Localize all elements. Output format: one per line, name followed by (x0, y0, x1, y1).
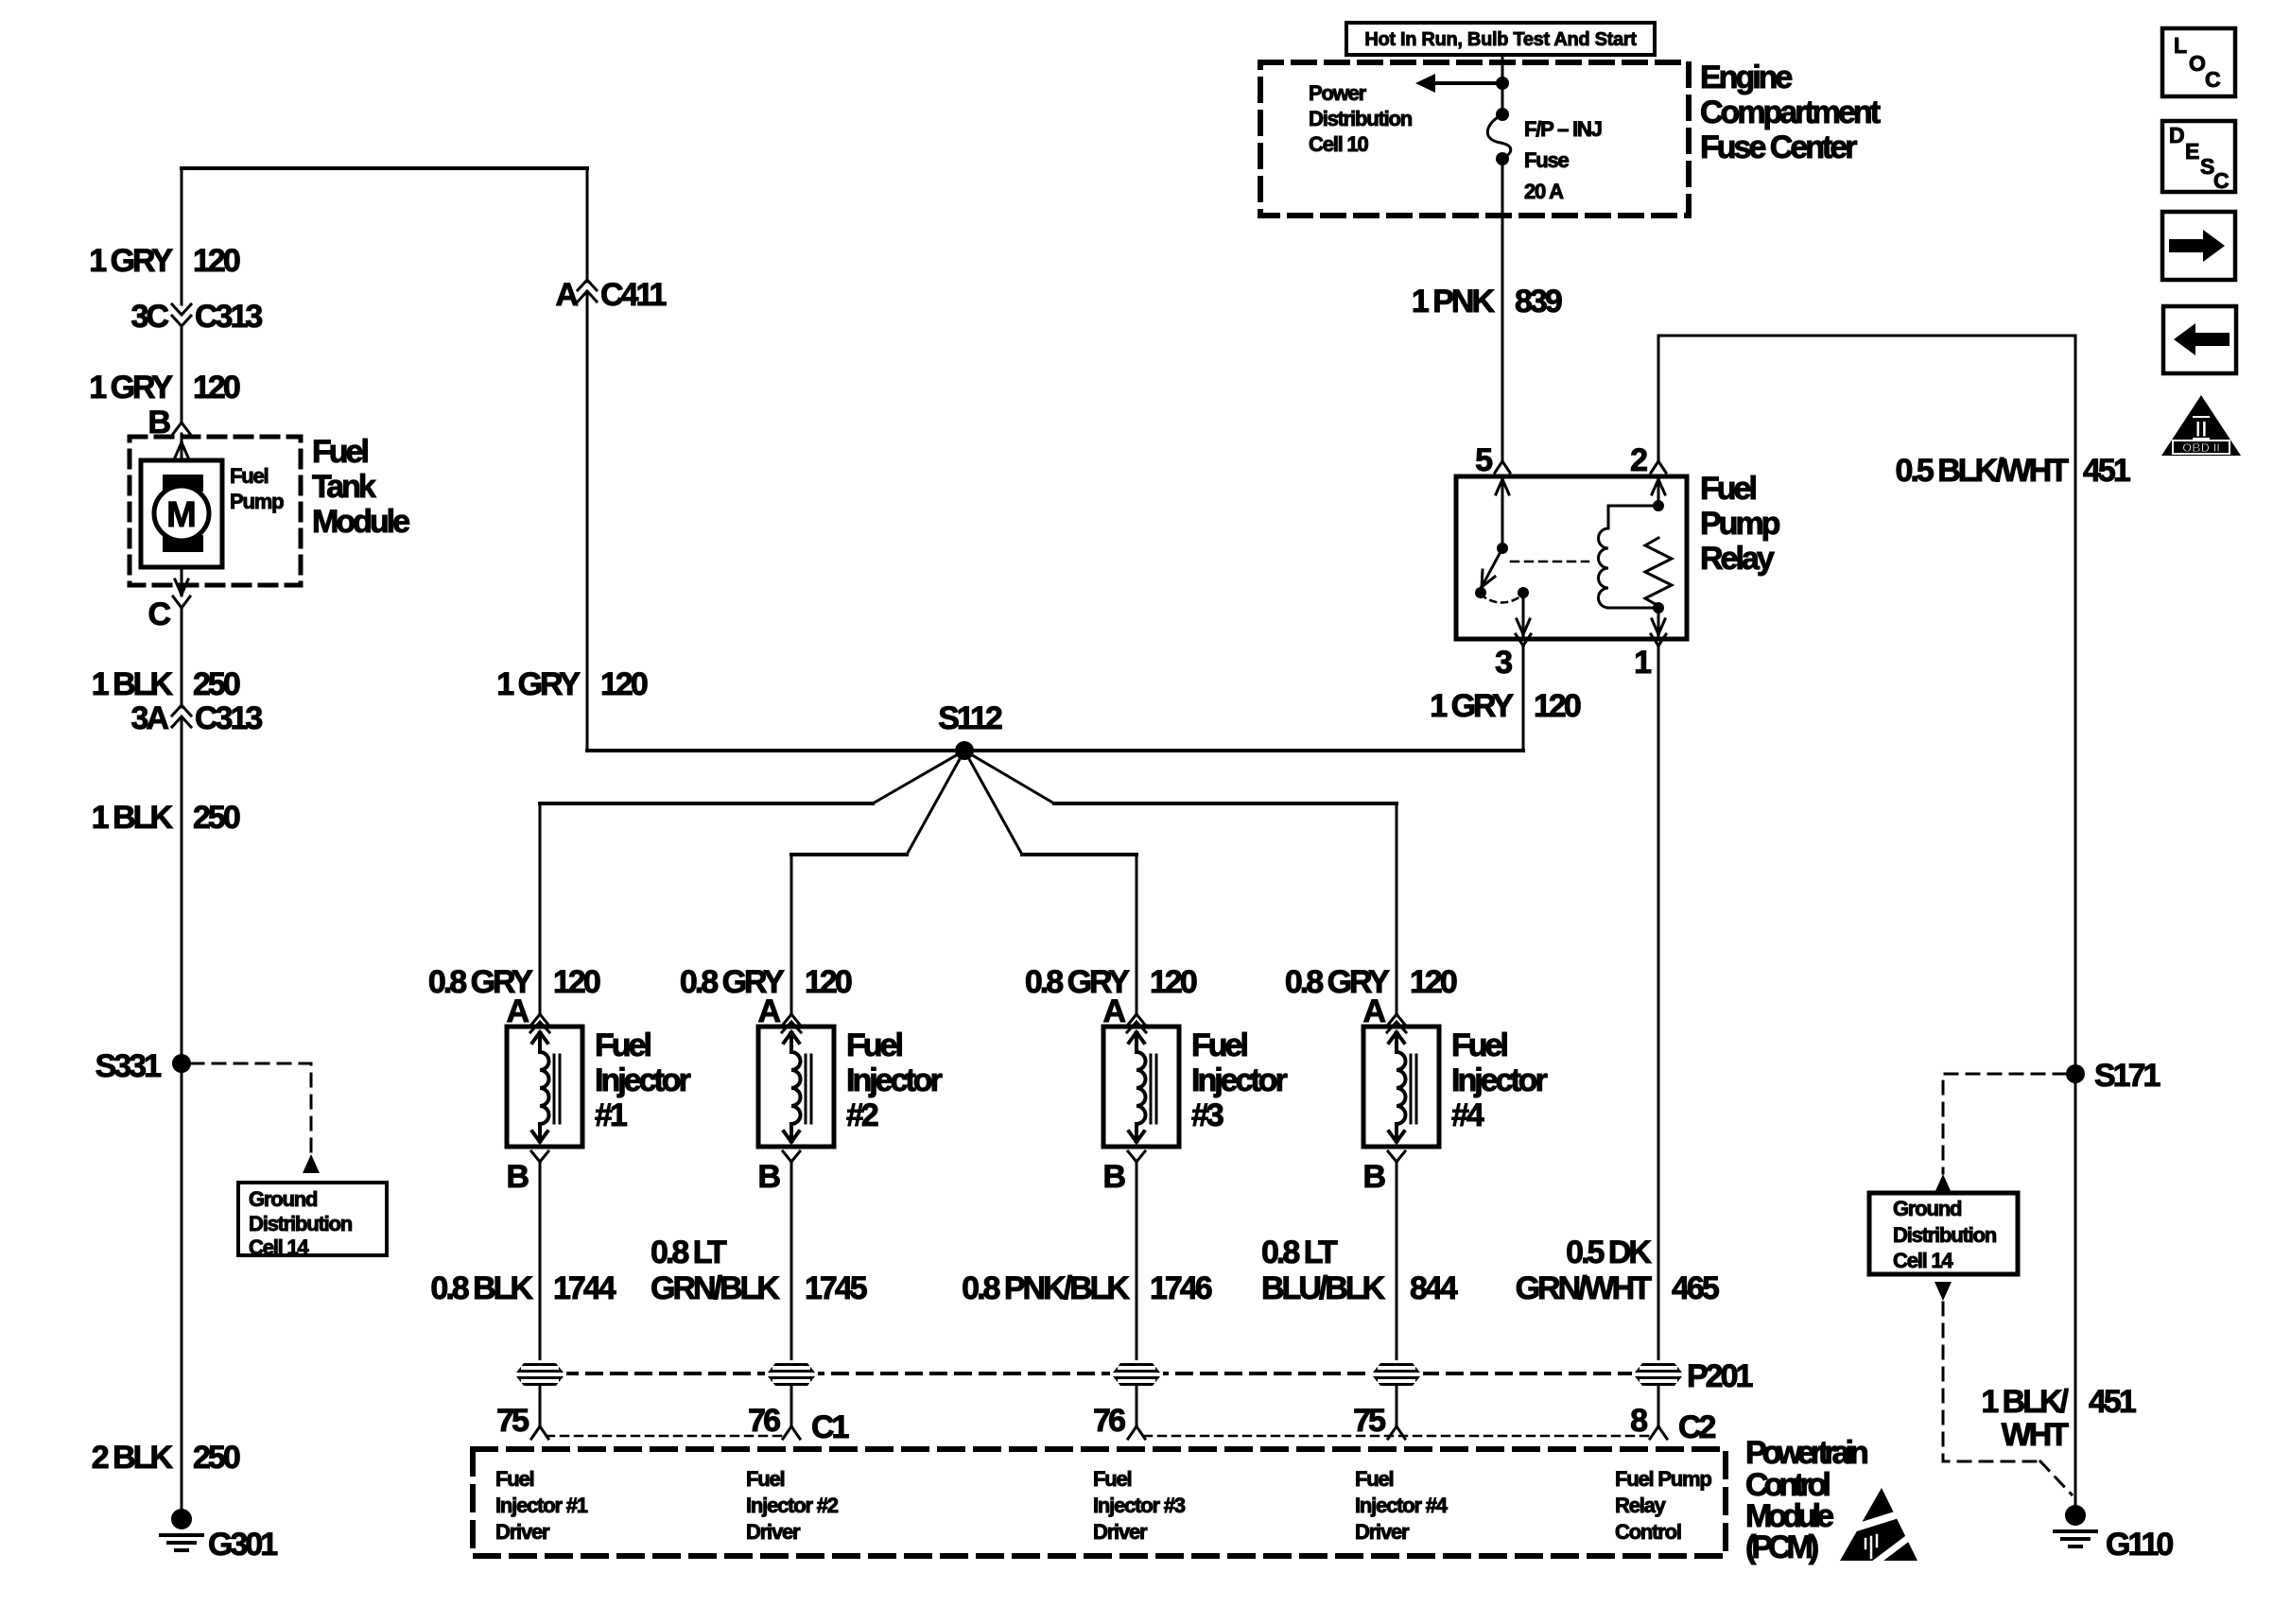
pin B of fuel injector #3 (1102, 1151, 1145, 1195)
pin 2 of fuel pump relay (1630, 442, 1666, 478)
svg-text:1 BLK/: 1 BLK/ (1981, 1384, 2069, 1420)
wire: injector #4 return to PCM through P201 (1396, 1162, 1398, 1363)
svg-text:465: 465 (1672, 1270, 1719, 1306)
svg-text:76: 76 (1093, 1403, 1125, 1439)
splice S331 (95, 1048, 191, 1084)
icon: OBD II triangle (2161, 395, 2241, 456)
label: 1 GRY 120 (C411 branch) (496, 666, 648, 702)
pin A of fuel injector #1 (506, 993, 549, 1032)
svg-text:Pump: Pump (1700, 506, 1780, 542)
pin B of fuel injector #2 (757, 1151, 800, 1195)
connector P201 pass-through at injector 2 wire (765, 1360, 818, 1389)
Ground Distribution Cell 14 reference box (right) (1869, 1193, 2018, 1274)
svg-text:WHT: WHT (2002, 1417, 2070, 1453)
svg-text:1 GRY: 1 GRY (1430, 688, 1514, 724)
wire: outer feed bus to injectors 1 and 4 (540, 802, 1397, 805)
wire: injector #2 return to PCM through P201 (790, 1162, 793, 1363)
icon: arrow right box (2162, 212, 2235, 280)
wire: feed drop 0.8 GRY 120 to fuel injector #1 (539, 803, 542, 1014)
svg-text:844: 844 (1410, 1270, 1458, 1306)
svg-text:Injector: Injector (595, 1063, 691, 1098)
svg-text:S331: S331 (95, 1048, 161, 1084)
pin B of fuel injector #4 (1362, 1151, 1405, 1195)
svg-text:3C: 3C (131, 299, 169, 335)
svg-text:250: 250 (193, 800, 240, 836)
svg-text:0.8 PNK/BLK: 0.8 PNK/BLK (962, 1270, 1130, 1306)
label: Fuel Pump Relay (1700, 471, 1780, 577)
svg-text:1: 1 (1634, 645, 1651, 681)
wire: dashed reference from Ground Distribution box to G110 (1935, 1282, 1952, 1301)
svg-text:#3: #3 (1191, 1097, 1223, 1133)
svg-text:120: 120 (193, 370, 240, 406)
PCM connector face dashed tie line (547, 1435, 1652, 1438)
label: PCM driver Injector #2 (746, 1467, 839, 1544)
pin 8 of PCM (1630, 1403, 1715, 1445)
svg-text:#1: #1 (595, 1097, 627, 1133)
pin 3 of fuel pump relay (1495, 634, 1531, 681)
svg-text:75: 75 (1353, 1403, 1385, 1439)
svg-text:Ground: Ground (1893, 1197, 1961, 1220)
pin C of fuel tank module (147, 596, 190, 632)
label: Fuel Injector #1 (595, 1028, 691, 1133)
connector P201 pass-through at injector 1 wire (513, 1360, 566, 1389)
svg-text:451: 451 (2083, 453, 2130, 489)
wire: right vertical run to G110 (2074, 336, 2077, 1509)
svg-text:120: 120 (553, 964, 600, 1000)
label: wire circuit number 1746 (962, 1270, 1212, 1306)
label: Engine Compartment Fuse Center (1700, 60, 1881, 165)
wire: left column upper segment (1 GRY 120) (181, 168, 183, 304)
pin 5 of fuel pump relay (1475, 442, 1510, 478)
connector C313 pin 3A (inline connector, chevrons up) (131, 700, 263, 736)
svg-text:C: C (2205, 67, 2221, 92)
wire: relay pin 2 up and across to right side (0.5 BLK/WHT 451) (1658, 336, 2075, 461)
svg-text:120: 120 (805, 964, 852, 1000)
label: 1 GRY 120 (relay pin 3) (1430, 688, 1581, 724)
connector P201 pass-through at injector 4 wire (1370, 1360, 1423, 1389)
pin 75 of PCM (496, 1403, 548, 1439)
fuel tank module dashed enclosure (130, 437, 301, 585)
label: 0.8 GRY 120 (injector #4) (1285, 964, 1457, 1000)
svg-text:76: 76 (748, 1403, 780, 1439)
label: Fuel Pump (230, 464, 284, 513)
svg-text:A: A (757, 993, 780, 1029)
ESD sensitivity symbol (triangle with hand) (1840, 1488, 1919, 1564)
svg-text:Fuel: Fuel (230, 464, 269, 488)
svg-text:Power: Power (1309, 81, 1367, 105)
svg-text:L: L (2174, 33, 2187, 58)
svg-text:Fuel Pump: Fuel Pump (1615, 1467, 1711, 1491)
label: 1 GRY 120 (upper) (89, 243, 240, 279)
splice S171 (2066, 1058, 2160, 1094)
svg-text:A: A (506, 993, 529, 1029)
label: wire circuit number 1745 (651, 1235, 867, 1306)
label: wire circuit number 1744 (430, 1270, 616, 1306)
svg-text:3A: 3A (131, 700, 169, 736)
icon: arrow left box (2163, 306, 2236, 373)
svg-text:GRN/WHT: GRN/WHT (1516, 1270, 1653, 1306)
svg-text:Fuel: Fuel (1093, 1467, 1132, 1491)
wire: motor to pin C with down arrow (181, 567, 183, 596)
wire: 1 PNK 839 from fuse to relay pin 5 (1501, 159, 1504, 461)
svg-text:250: 250 (193, 666, 240, 702)
wire: relay pin 1 (0.5 DK GRN/WHT 465) down to P201 and PCM (1657, 646, 1660, 1363)
wire: inner feed bus to injectors 2 and 3 (791, 853, 1136, 856)
pin A of fuel injector #4 (1362, 993, 1406, 1032)
wire: C411 column upper segment (586, 168, 589, 282)
pin 1 of fuel pump relay (1634, 634, 1666, 681)
svg-text:Distribution: Distribution (1309, 107, 1413, 130)
pin A of fuel injector #3 (1102, 993, 1146, 1032)
label: 0.5 BLK/WHT 451 (1896, 453, 2130, 489)
fuel injector #3 (solenoid valve) (1103, 1027, 1179, 1147)
wire: feed drop 0.8 GRY 120 to fuel injector #2 (790, 855, 793, 1014)
Ground Distribution Cell 14 reference box (left) (238, 1183, 387, 1259)
label: Fuel Injector #4 (1451, 1028, 1548, 1133)
svg-text:Fuel: Fuel (312, 434, 368, 470)
svg-text:1 PNK: 1 PNK (1412, 284, 1496, 320)
wire: left column long 1 BLK 250 run to G301 (181, 717, 183, 1511)
svg-text:250: 250 (193, 1440, 240, 1476)
svg-text:M: M (166, 495, 197, 535)
node: junction to Power Distribution arrow (1496, 77, 1509, 90)
svg-text:S171: S171 (2094, 1058, 2160, 1094)
svg-text:Module: Module (312, 504, 409, 540)
fuel pump motor M1 (motor symbol) (141, 460, 222, 567)
label: 0.8 GRY 120 (injector #3) (1025, 964, 1197, 1000)
svg-text:1746: 1746 (1150, 1270, 1212, 1306)
svg-text:0.5 BLK/WHT: 0.5 BLK/WHT (1896, 453, 2070, 489)
svg-text:1744: 1744 (553, 1270, 616, 1306)
engine compartment fuse center dashed enclosure (1260, 62, 1689, 216)
svg-text:Ground: Ground (249, 1187, 317, 1211)
svg-text:Injector: Injector (1191, 1063, 1288, 1098)
wire: segments from P201 to PCM connector pins (539, 1385, 542, 1426)
label: 1 BLK/WHT 451 (1981, 1384, 2136, 1453)
svg-text:3: 3 (1495, 645, 1512, 681)
svg-text:Fuel: Fuel (1700, 471, 1756, 507)
svg-text:B: B (757, 1159, 780, 1195)
label: Fuel Injector #3 (1191, 1028, 1288, 1133)
svg-text:Fuse Center: Fuse Center (1700, 130, 1857, 165)
svg-text:2: 2 (1630, 442, 1647, 478)
connector P201 pass-through at injector 3 wire (1110, 1360, 1163, 1389)
svg-text:Fuse: Fuse (1524, 148, 1570, 172)
svg-text:G301: G301 (208, 1527, 277, 1563)
svg-text:Fuel: Fuel (1191, 1028, 1247, 1063)
svg-text:BLU/BLK: BLU/BLK (1261, 1270, 1386, 1306)
svg-text:B: B (506, 1159, 529, 1195)
svg-text:1 BLK: 1 BLK (92, 666, 174, 702)
svg-text:B: B (1362, 1159, 1385, 1195)
svg-text:1745: 1745 (805, 1270, 867, 1306)
svg-text:C: C (147, 596, 170, 632)
splice S112 (938, 700, 1002, 760)
svg-text:#4: #4 (1451, 1097, 1484, 1133)
pin 75 of PCM (1353, 1403, 1405, 1439)
wire: dashed reference from S331 to Ground Distribution Cell 14 (191, 1063, 311, 1153)
svg-text:Driver: Driver (1093, 1520, 1148, 1544)
svg-text:Fuel: Fuel (1355, 1467, 1394, 1491)
svg-text:Cell 14: Cell 14 (1893, 1249, 1953, 1272)
svg-text:75: 75 (496, 1403, 529, 1439)
svg-text:451: 451 (2089, 1384, 2136, 1420)
label: Power Distribution Cell 10 (1309, 81, 1413, 156)
pin B of fuel tank module (147, 405, 190, 441)
svg-text:(PCM): (PCM) (1745, 1529, 1818, 1565)
connector C313 pin 3C (inline connector, chevrons down) (131, 299, 263, 335)
svg-text:2 BLK: 2 BLK (92, 1440, 174, 1476)
svg-text:C2: C2 (1678, 1409, 1716, 1445)
wire: top horizontal 1 GRY bus from fuel pump column to C411 column (182, 166, 587, 170)
power feed box: Hot In Run, Bulb Test And Start (1346, 23, 1655, 55)
svg-text:C1: C1 (811, 1409, 849, 1445)
wire: left column segment between C313 and fuel tank module (1 GRY 120) (181, 326, 183, 423)
label: 0.5 DK GRN/WHT 465 (1516, 1235, 1719, 1306)
label: PCM driver Injector #3 (1093, 1467, 1186, 1544)
wire: left column 1 BLK 250 segment to C313 (181, 608, 183, 707)
pin B of fuel injector #1 (506, 1151, 548, 1195)
wire: injector #1 return to PCM through P201 (539, 1162, 542, 1363)
wire: injector #3 return to PCM through P201 (1136, 1162, 1138, 1363)
svg-text:Distribution: Distribution (1893, 1223, 1997, 1247)
svg-text:C313: C313 (195, 299, 262, 335)
svg-text:Injector #4: Injector #4 (1355, 1494, 1449, 1517)
svg-text:Pump: Pump (230, 490, 284, 513)
svg-text:1 GRY: 1 GRY (89, 243, 173, 279)
svg-text:Control: Control (1615, 1520, 1681, 1544)
wire: feed from hot bus into fuse (1501, 55, 1504, 83)
ground G301 (161, 1509, 277, 1563)
svg-text:Relay: Relay (1700, 541, 1775, 577)
wire: feed drop 0.8 GRY 120 to fuel injector #4 (1396, 803, 1398, 1014)
svg-text:1 BLK: 1 BLK (92, 800, 174, 836)
svg-text:B: B (1102, 1159, 1125, 1195)
svg-text:Driver: Driver (746, 1520, 801, 1544)
svg-text:Driver: Driver (1355, 1520, 1410, 1544)
label: 2 BLK 250 (92, 1440, 240, 1476)
svg-text:S112: S112 (938, 700, 1002, 736)
svg-text:1 GRY: 1 GRY (89, 370, 173, 406)
fuel pump relay K1 (1456, 476, 1687, 639)
wire: main horizontal 1 GRY bus through splice S112 (587, 749, 1523, 752)
label: 0.8 GRY 120 (injector #1) (428, 964, 600, 1000)
label: PCM driver Injector #4 (1355, 1467, 1449, 1544)
svg-text:1 GRY: 1 GRY (496, 666, 581, 702)
wire: C411 column lower segment 1 GRY 120 down to S112 bus (586, 292, 589, 751)
Powertrain Control Module dashed enclosure (473, 1449, 1726, 1556)
wire: dashed reference from S171 to Ground Distribution Cell 14 (1943, 1074, 2066, 1173)
label: PCM driver Injector #1 (495, 1467, 588, 1544)
svg-text:120: 120 (1150, 964, 1197, 1000)
label: 0.8 GRY 120 (injector #2) (680, 964, 852, 1000)
pin 76 of PCM (1093, 1403, 1145, 1439)
svg-text:120: 120 (1534, 688, 1581, 724)
wire: feed into motor with up arrow (181, 434, 183, 460)
svg-text:Tank: Tank (312, 469, 376, 505)
svg-text:Hot In Run, Bulb Test And Star: Hot In Run, Bulb Test And Start (1364, 29, 1637, 50)
svg-text:Injector: Injector (1451, 1063, 1548, 1098)
svg-text:Fuel: Fuel (1451, 1028, 1507, 1063)
svg-text:G110: G110 (2106, 1527, 2173, 1563)
svg-text:A: A (1362, 993, 1385, 1029)
label: 1 PNK 839 (1412, 284, 1562, 320)
svg-text:8: 8 (1630, 1403, 1647, 1439)
svg-text:Fuel: Fuel (595, 1028, 651, 1063)
label: wire circuit number 844 (1261, 1235, 1458, 1306)
svg-text:Injector #1: Injector #1 (495, 1494, 588, 1517)
svg-text:Fuel: Fuel (746, 1467, 785, 1491)
svg-text:Powertrain: Powertrain (1745, 1435, 1867, 1471)
svg-text:F/P – INJ: F/P – INJ (1524, 117, 1602, 141)
wire: arrow to Power Distribution Cell 10 (1433, 81, 1502, 85)
svg-text:Injector #2: Injector #2 (746, 1494, 839, 1517)
svg-text:#2: #2 (846, 1097, 878, 1133)
svg-text:Injector #3: Injector #3 (1093, 1494, 1186, 1517)
svg-text:0.5 DK: 0.5 DK (1566, 1235, 1652, 1270)
svg-text:Fuel: Fuel (846, 1028, 902, 1063)
svg-text:A: A (1102, 993, 1125, 1029)
label: Fuel Tank Module (312, 434, 409, 540)
connector P201 dashed tie line (563, 1372, 1636, 1375)
svg-text:Cell 10: Cell 10 (1309, 132, 1368, 156)
svg-text:C411: C411 (600, 277, 666, 313)
svg-text:120: 120 (1410, 964, 1457, 1000)
svg-text:O: O (2189, 51, 2206, 76)
svg-text:D: D (2169, 123, 2185, 147)
svg-text:120: 120 (600, 666, 648, 702)
icon: DESC box (2162, 121, 2235, 193)
connector P201 pass-through at relay control wire (1632, 1360, 1685, 1389)
label: Powertrain Control Module (PCM) (1745, 1435, 1867, 1565)
svg-text:Compartment: Compartment (1700, 95, 1881, 130)
svg-text:Fuel: Fuel (495, 1467, 534, 1491)
svg-text:E: E (2185, 139, 2199, 164)
svg-text:0.8 LT: 0.8 LT (651, 1235, 727, 1270)
svg-text:GRN/BLK: GRN/BLK (651, 1270, 780, 1306)
label: PCM driver Relay (1615, 1467, 1711, 1544)
fuel injector #2 (solenoid valve) (758, 1027, 834, 1147)
svg-text:C313: C313 (195, 700, 262, 736)
svg-text:P201: P201 (1687, 1358, 1752, 1394)
svg-text:839: 839 (1515, 284, 1562, 320)
connector C411 pin A (inline connector, chevrons up) (555, 277, 666, 313)
svg-text:20 A: 20 A (1524, 180, 1564, 203)
svg-text:A: A (555, 277, 578, 313)
svg-text:Injector: Injector (846, 1063, 943, 1098)
svg-text:Driver: Driver (495, 1520, 550, 1544)
svg-text:OBD II: OBD II (2182, 441, 2220, 455)
svg-text:Cell 14: Cell 14 (249, 1235, 309, 1259)
wire: relay pin 3 down to S112 bus (1 GRY 120) (1522, 646, 1525, 751)
fuse F/P-INJ 20 A (1487, 83, 1510, 165)
label: F/P - INJ Fuse 20 A (1524, 117, 1602, 203)
svg-text:0.8 BLK: 0.8 BLK (430, 1270, 533, 1306)
wire: S112 fan-out diagonals to injector feed buses (873, 751, 1054, 855)
wire: feed drop 0.8 GRY 120 to fuel injector #3 (1136, 855, 1138, 1014)
svg-text:Relay: Relay (1615, 1494, 1667, 1517)
svg-text:Distribution: Distribution (249, 1212, 353, 1235)
label: 1 BLK 250 (92, 666, 240, 702)
svg-text:0.8 LT: 0.8 LT (1261, 1235, 1338, 1270)
svg-text:5: 5 (1475, 442, 1492, 478)
pin A of fuel injector #2 (757, 993, 801, 1032)
svg-text:120: 120 (193, 243, 240, 279)
label: 1 BLK 250 (lower) (92, 800, 240, 836)
fuel injector #4 (solenoid valve) (1363, 1027, 1439, 1147)
svg-text:Engine: Engine (1700, 60, 1792, 95)
fuel injector #1 (solenoid valve) (507, 1027, 582, 1147)
pin 76 of PCM (748, 1403, 848, 1445)
ground G110 (2055, 1505, 2173, 1563)
icon: LOC box (2162, 28, 2235, 96)
svg-text:C: C (2213, 168, 2230, 193)
label: 1 GRY 120 (below C313) (89, 370, 240, 406)
label: Fuel Injector #2 (846, 1028, 943, 1133)
